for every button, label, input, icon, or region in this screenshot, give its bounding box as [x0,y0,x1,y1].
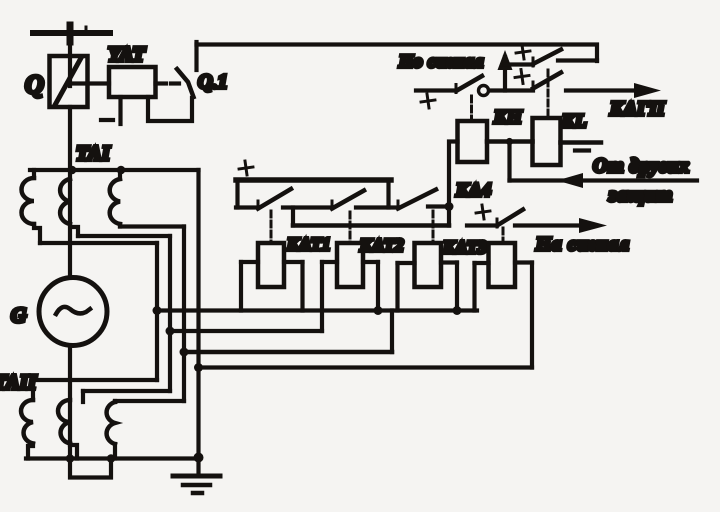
wire contact3 to KA4 line [428,204,449,208]
current transformer TAI winding 2 [60,179,78,236]
relay coil KAT3 [398,243,458,311]
wire TAII run b [83,389,170,393]
wire TAII top run a [33,378,157,382]
wire line L4 [199,365,533,369]
wire between contacts 1-2 [283,205,332,209]
contact KA4 signal [497,210,523,228]
label plus KH row [420,93,436,109]
wire node to KL contact 1 [505,62,533,66]
wire KL to minus [561,140,602,145]
wire line L3 [184,350,392,355]
wire signal row right [515,223,580,227]
wire T-drop to other protections [507,142,511,181]
link KA4 dashed [502,228,505,243]
trip coil YAT [109,67,156,97]
link KH dashed [470,96,473,121]
wire signal branch up arrow [498,50,513,91]
svg-text:КАГП: КАГП [609,98,666,120]
wire line L2 [170,329,322,333]
current transformer TAII winding 3 [107,401,115,459]
svg-text:YAT: YAT [108,42,146,66]
wire KAGP output [566,88,640,92]
label minus KL [575,148,589,152]
contact KL2 [533,73,561,91]
link KAT2 dashed [349,212,352,243]
wire drop vertical 4 ground line [196,170,200,458]
wire TAII run c [115,399,184,403]
wire main conductor Q to generator [68,107,72,277]
node contact3 KA4 junction [445,202,454,211]
wire KL1 to top line [558,58,597,62]
svg-text:G: G [11,303,26,327]
label minus [101,118,113,122]
svg-text:Q: Q [25,70,44,99]
label plus signal row [475,204,491,220]
wire TAI top bus [30,168,199,172]
wire TAII run b stub [81,391,85,402]
current transformer TAI winding 1 [22,170,41,243]
label plus chain [238,160,254,176]
wire line Y310 [157,308,477,312]
node riser bottom junction [107,454,116,463]
wire plus bus left drop [235,180,239,208]
svg-text:Q.1: Q.1 [198,71,227,93]
contact KAT3 [398,190,436,210]
svg-text:На сигнал: На сигнал [535,234,630,255]
svg-text:От других: От других [593,155,690,177]
contact KL1 [533,50,561,67]
circuit breaker Q [50,56,88,107]
wire main conductor generator to TAII [68,346,72,459]
wire CT2 bottom [78,234,170,238]
label plus KL2 [514,69,530,85]
svg-text:КН: КН [493,107,523,128]
svg-text:Но сигнал: Но сигнал [398,51,484,71]
wire YAT bottom loop to Q.1 [148,97,192,121]
wire bus right corner drop [386,180,390,208]
wire drop vertical 1 [155,243,159,380]
relay coil KA4 [475,243,533,311]
node KH KL tap [506,138,513,145]
busbar top supply [33,25,110,42]
current transformer TAII winding 2 [58,400,77,459]
wire signal row left [467,223,497,227]
svg-text:TAI: TAI [76,141,111,165]
svg-text:КАТ3: КАТ3 [442,237,487,257]
node TAI CT3 junction [117,166,126,175]
wire KA4 vertical [449,142,458,226]
svg-text:КАТ1: КАТ1 [286,234,331,254]
wire riser to bus2 [291,208,295,226]
link KAT3 dashed [432,211,435,243]
svg-text:защит: защит [608,184,673,206]
contact KAT2 [332,191,364,210]
wire top long run to KH contact [197,45,598,62]
relay KH coil [458,121,488,162]
node terminal circle [479,86,489,96]
contact KH [416,76,482,93]
relay KL coil [533,118,561,165]
node drop4 L4 [194,363,203,372]
wire between contacts 2-3 [356,205,398,209]
relay coil KAT2 [322,243,378,331]
node main line bottom junction [66,454,75,463]
wire bottom loop [70,459,111,478]
generator G [39,278,107,346]
wire from other protections [510,178,698,182]
wire CT1 bottom [40,241,157,245]
current transformer TAII winding 1 [21,380,33,459]
wire YAT to minus [118,97,122,124]
link KL dashed [547,70,550,118]
node KAT2 right junction [374,306,383,315]
label plus KL1 [515,44,531,60]
wire TAII bottom bus [26,456,199,460]
node TAI main junction [68,166,77,175]
wire circle to KL contacts [490,88,533,92]
wire L3 riser [390,311,394,353]
wire CT3 bottom [120,224,184,228]
contact Q.1 [156,42,197,97]
arrow to signal [579,218,607,233]
wire drop vertical 2 [168,236,172,391]
contact KAT1 [236,189,291,209]
node drop2 L2 [166,327,175,336]
arrow KAGP [634,83,661,98]
current transformer TAI winding 3 [110,170,120,227]
svg-text:КL: КL [561,111,587,132]
wire L4 riser coil KA4 right [530,263,534,368]
node KAT3 right junction [453,306,462,315]
arrow from other protections [557,173,583,188]
wire bus2 [293,223,449,228]
ground [173,458,220,494]
wire main conductor from busbar to Q [68,33,72,86]
wire plus bus [236,177,391,183]
svg-text:КАТ2: КАТ2 [359,235,404,255]
relay coil KAT1 [241,243,303,311]
node drop3 L3 [180,348,189,357]
svg-text:КА4: КА4 [455,180,491,201]
wire drop vertical 3 [182,227,186,402]
link KAT1 dashed [270,211,273,243]
wire Q to YAT [72,81,109,85]
wire KH to KL [487,139,533,144]
node ground junction [194,453,204,463]
node drop1 L1 [153,306,162,315]
